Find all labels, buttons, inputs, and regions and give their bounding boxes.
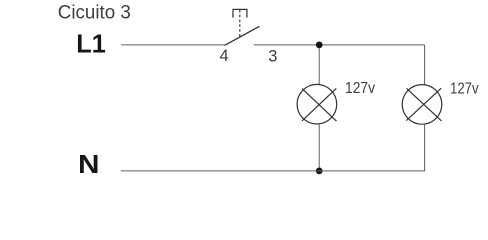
wire L1 to switch pin 4 xyxy=(121,44,225,46)
switch S1 blade xyxy=(225,26,260,45)
wire N bottom rail xyxy=(121,170,425,172)
lamp H1 circle xyxy=(297,84,337,124)
svg-text:3: 3 xyxy=(268,48,277,66)
junction node top xyxy=(316,42,323,49)
wire top-right corner down to lamp H2 xyxy=(424,45,426,85)
svg-text:127v: 127v xyxy=(450,80,479,97)
switch S1 actuator dashed link xyxy=(239,10,241,37)
wire top junction down to lamp H1 xyxy=(318,45,320,85)
svg-text:4: 4 xyxy=(220,47,229,65)
switch S1 push-button actuator xyxy=(233,9,247,17)
wire lamp H1 down to bottom junction xyxy=(318,124,320,171)
lamp H1 X cross xyxy=(302,88,337,121)
svg-text:L1: L1 xyxy=(76,31,106,59)
svg-text:127v: 127v xyxy=(345,80,375,97)
lamp H2 circle xyxy=(402,85,442,125)
svg-text:Cicuito 3: Cicuito 3 xyxy=(58,3,131,24)
lamp H2 X cross xyxy=(406,88,441,121)
wire lamp H2 down to bottom wire xyxy=(424,124,426,171)
wire switch pin 3 to top-right corner xyxy=(254,44,425,46)
junction node bottom xyxy=(316,168,323,175)
svg-text:N: N xyxy=(78,151,100,179)
